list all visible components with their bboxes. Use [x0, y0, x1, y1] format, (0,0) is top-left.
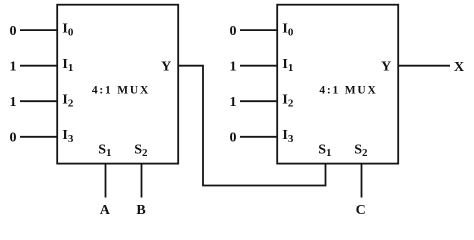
svg-text:A: A: [100, 203, 111, 218]
wire : input 0 to U1 I0: [20, 29, 57, 31]
svg-text:1: 1: [10, 59, 17, 74]
wire : U2 Y output to X: [398, 65, 450, 67]
svg-text:C: C: [356, 203, 366, 218]
wire : input 1 to U2 I1: [240, 65, 277, 67]
wire : input 0 to U2 I0: [240, 29, 277, 31]
svg-text:4:1 MUX: 4:1 MUX: [319, 84, 377, 96]
wire : input 1 to U1 I2: [20, 100, 57, 102]
op-amp U1 : left 4:1 MUX body: [57, 5, 178, 164]
svg-text:1: 1: [230, 59, 237, 74]
svg-text:0: 0: [230, 131, 237, 146]
svg-text:B: B: [136, 203, 145, 218]
wire : input 1 to U1 I1: [20, 65, 57, 67]
svg-text:1: 1: [230, 95, 237, 110]
wire : U1 S1 stub to A: [105, 164, 107, 198]
op-amp U2 : right 4:1 MUX body: [277, 5, 398, 164]
svg-text:1: 1: [10, 95, 17, 110]
wire : input 1 to U2 I2: [240, 100, 277, 102]
wire : input 0 to U1 I3: [20, 136, 57, 138]
svg-text:0: 0: [230, 24, 237, 39]
svg-text:0: 0: [10, 24, 17, 39]
wire : U1 S2 stub to B: [141, 164, 143, 198]
wire : input 0 to U2 I3: [240, 136, 277, 138]
svg-text:Y: Y: [381, 59, 391, 74]
svg-text:4:1 MUX: 4:1 MUX: [92, 84, 150, 96]
wire : U1 Y output to U2 S1: [178, 66, 325, 186]
wire : U2 S2 stub to C: [361, 164, 363, 198]
svg-text:X: X: [454, 60, 464, 75]
svg-text:Y: Y: [161, 59, 171, 74]
svg-text:0: 0: [10, 131, 17, 146]
